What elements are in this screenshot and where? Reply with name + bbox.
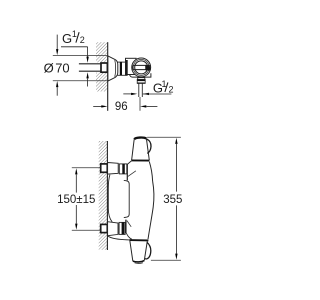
svg-text:96: 96: [115, 101, 128, 113]
bottom union body edge: [125, 220, 127, 233]
svg-text:70: 70: [55, 61, 69, 76]
svg-text:2: 2: [80, 35, 85, 45]
neck ring (black band, top view): [120, 62, 122, 75]
top union cone: [108, 163, 120, 175]
top union body edge: [126, 164, 128, 180]
svg-text:1: 1: [72, 29, 77, 39]
wall fitting block (top view): [101, 63, 107, 72]
lower body back contour: [108, 236, 130, 240]
wall face line (top view): [107, 42, 109, 111]
bottom union nut: [119, 222, 125, 234]
top knob grip wing: [147, 139, 151, 154]
label G1/2 bottom (shower outlet thread): [123, 79, 173, 96]
neck between escutcheon and body (top view): [118, 62, 127, 75]
bottom union boss contour: [127, 221, 131, 227]
body waist front line: [124, 180, 129, 217]
lever slot (top view): [133, 65, 151, 69]
svg-text:G: G: [62, 31, 72, 46]
dimension 96: [93, 101, 157, 113]
joint connector bottom: [126, 233, 132, 239]
upper body flank: [149, 162, 152, 181]
bottom union cone: [108, 222, 120, 236]
joint connector top: [127, 161, 131, 165]
top union nut: [119, 164, 127, 174]
escutcheon (top view): [108, 56, 118, 81]
label G1/2 top (supply thread): [61, 29, 89, 87]
svg-text:355: 355: [163, 194, 182, 206]
outlet collar (top view): [138, 78, 145, 80]
outlet pipe (top view): [139, 84, 143, 98]
skirt under handle (top view): [130, 73, 151, 77]
wall face line (bottom view): [106, 141, 108, 250]
svg-text:150±15: 150±15: [57, 194, 95, 206]
bottom knob grip wing: [145, 242, 151, 259]
svg-text:2: 2: [169, 85, 174, 95]
outlet nut (top view): [137, 79, 145, 83]
top union boss contour: [128, 171, 136, 177]
handle outer ring (top view): [132, 58, 151, 77]
body block (top view): [126, 58, 137, 75]
lever grip (dark, top view): [145, 65, 150, 71]
supply pipe (top view): [79, 64, 101, 71]
bottom knob (volume handle): [129, 240, 148, 263]
svg-text:Ø: Ø: [44, 61, 54, 76]
pipe centre extension line: [139, 97, 141, 111]
top knob (temperature handle): [131, 138, 149, 161]
body belly arc: [148, 181, 154, 239]
body back contour along wall: [108, 175, 112, 222]
bottom union block in wall: [101, 224, 108, 232]
handle middle ring (top view): [133, 59, 149, 75]
top union block in wall: [101, 164, 108, 172]
dimension D70 (escutcheon): [44, 35, 108, 96]
handle inner ring (top view): [135, 61, 148, 74]
wall hatch (bottom view): [99, 141, 108, 250]
dimension 150+-15: [57, 168, 101, 230]
wall hatch (top view): [96, 42, 107, 91]
dimension 355: [147, 137, 182, 260]
